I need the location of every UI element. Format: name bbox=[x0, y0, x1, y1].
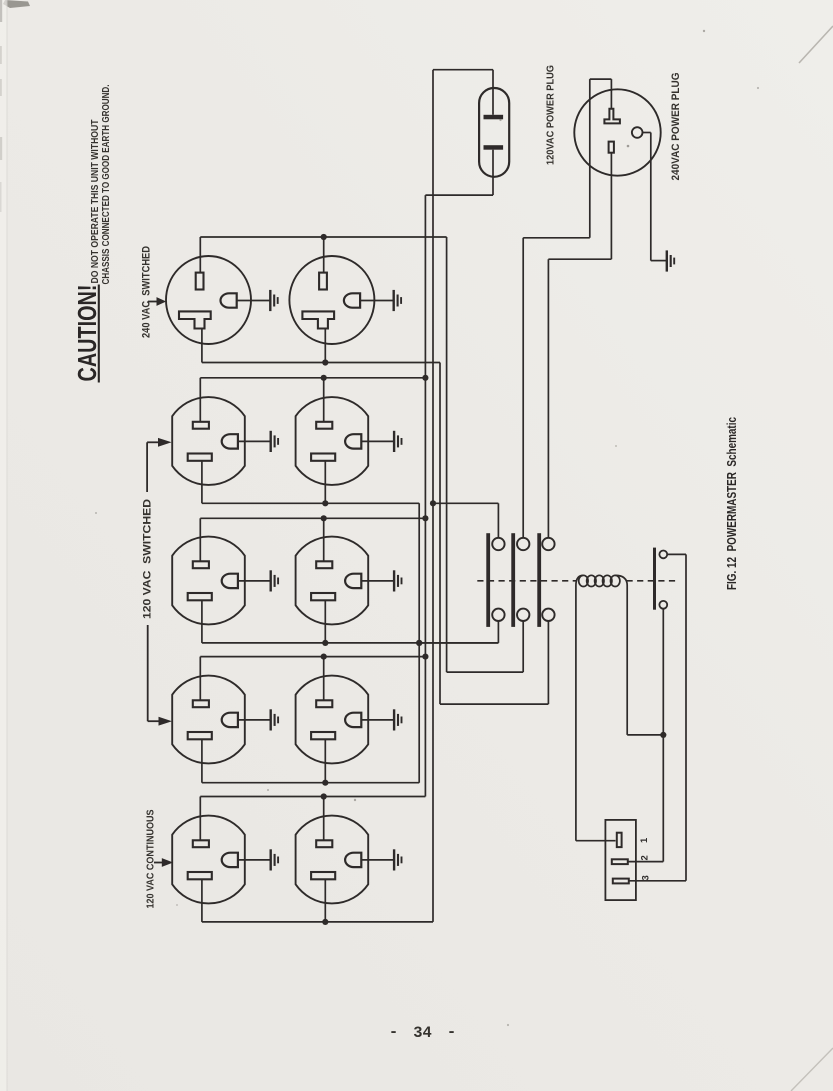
wire: coil lead joining switch wire bbox=[627, 586, 666, 739]
svg-text:-: - bbox=[389, 1023, 398, 1041]
120VAC plug P1 blade A bbox=[484, 88, 504, 119]
switch S1 contacts bbox=[659, 551, 667, 609]
svg-text:3: 3 bbox=[641, 875, 652, 880]
wire: plug P1 blade B to bus VL-B bbox=[425, 177, 493, 195]
receptacle J8 (row 4 120 VAC, col 2) bbox=[296, 676, 402, 764]
240VAC plug P2 round pin bbox=[632, 127, 643, 138]
svg-text:34: 34 bbox=[413, 1024, 432, 1042]
label: 120 VAC CONTINUOUS bbox=[146, 809, 157, 908]
chassis ground symbol bbox=[667, 250, 674, 271]
arrow: 120 VAC CONTINUOUS to row 5 bbox=[154, 858, 173, 867]
svg-text:120 VAC CONTINUOUS: 120 VAC CONTINUOUS bbox=[146, 809, 157, 908]
wire: bus VL-E (240V top to relay contact 2) bbox=[446, 237, 448, 672]
wire: bus VL-D (240V bottom to relay contact 3) bbox=[439, 363, 441, 705]
relay K1 mechanical linkage (dashed) bbox=[477, 580, 679, 582]
relay K1 contact blades bbox=[486, 533, 541, 627]
label: CAUTION! heading bbox=[72, 285, 102, 382]
receptacle J7 (row 4 120 VAC, col 1) bbox=[172, 676, 278, 764]
arrow: 120 VAC SWITCHED to row 2 bbox=[147, 438, 172, 492]
wire: plug P2 round pin to chassis ground bbox=[643, 133, 667, 261]
label: page number bbox=[389, 1023, 456, 1042]
wire: row 5 bottom bus bbox=[202, 879, 433, 925]
label: 240 VAC SWITCHED bbox=[141, 246, 153, 338]
svg-text:120VAC POWER PLUG: 120VAC POWER PLUG bbox=[546, 65, 557, 165]
240VAC power plug P2 body bbox=[574, 89, 660, 175]
svg-text:2: 2 bbox=[640, 855, 651, 860]
240VAC plug P2 ground pin (T) bbox=[604, 79, 620, 123]
wire: row 4 top bus bbox=[200, 654, 428, 701]
receptacle J1 (240 VAC switched, left) bbox=[166, 256, 278, 344]
terminal 2 slot bbox=[612, 859, 628, 864]
120VAC plug P1 blade B bbox=[484, 145, 504, 177]
svg-text:120 VAC SWITCHED: 120 VAC SWITCHED bbox=[142, 499, 154, 619]
svg-text:CHASSIS CONNECTED TO GOOD EART: CHASSIS CONNECTED TO GOOD EARTH GROUND. bbox=[101, 84, 112, 284]
120VAC power plug P1 body bbox=[479, 88, 509, 177]
wire: row 5 top bus bbox=[200, 793, 425, 840]
label: 240VAC POWER PLUG bbox=[670, 73, 682, 181]
arrow: 240 VAC SWITCHED to row 1 bbox=[148, 297, 166, 306]
switch S1 blade bbox=[653, 548, 656, 610]
receptacle J9 (row 5 120 VAC, col 1) bbox=[172, 816, 278, 904]
wire: 240V bottom bus bbox=[202, 329, 440, 366]
wire: row 4 bottom bus bbox=[202, 739, 419, 786]
wire: plug P1 blade A to bus VL-C bbox=[433, 70, 493, 88]
wire: 240V top bus bbox=[200, 234, 446, 273]
wire: relay contact2 top to 240V plug bbox=[523, 79, 611, 538]
wire: relay contact3 bottom to 240V bottom bus bbox=[440, 621, 548, 704]
terminal pin labels 1 2 3 bbox=[639, 837, 652, 881]
240VAC plug P2 slot pin bbox=[609, 142, 614, 260]
terminal 3 slot bbox=[613, 879, 629, 884]
label: caution line 1 bbox=[90, 119, 101, 284]
svg-text:CAUTION!: CAUTION! bbox=[72, 285, 102, 382]
svg-text:240VAC POWER PLUG: 240VAC POWER PLUG bbox=[670, 73, 682, 181]
wire: bus VL-A (switched rows neutral link) bbox=[416, 503, 422, 782]
receptacle J6 (row 3 120 VAC, col 2) bbox=[296, 537, 402, 625]
wire: coil lead to terminal 1 bbox=[576, 586, 616, 841]
wire: row 3 top bus bbox=[200, 515, 428, 561]
svg-text:-: - bbox=[447, 1023, 456, 1041]
label: 120 VAC SWITCHED bbox=[142, 499, 154, 619]
wire: bus VL-B (120V hot feed from plug blade B) bbox=[424, 195, 426, 796]
wire: switch top contact to terminal 3 bbox=[629, 554, 686, 880]
relay K1 contact points bbox=[492, 538, 554, 621]
svg-text:1: 1 bbox=[639, 837, 650, 843]
terminal strip TB1 body bbox=[605, 820, 636, 900]
wire: row 2 top bus bbox=[200, 375, 428, 422]
wire: relay contact3 top to 240V plug slot pin bbox=[548, 259, 611, 538]
svg-text:FIG. 12 POWERMASTER Schemati: FIG. 12 POWERMASTER Schematic bbox=[724, 417, 739, 590]
svg-text:240 VAC SWITCHED: 240 VAC SWITCHED bbox=[141, 246, 153, 338]
wire: row 2 bottom bus bbox=[202, 461, 419, 507]
svg-text:DO NOT OPERATE THIS UNIT WITHO: DO NOT OPERATE THIS UNIT WITHOUT bbox=[90, 119, 101, 284]
relay K1 coil bbox=[576, 575, 627, 586]
label: figure caption bbox=[724, 417, 739, 590]
receptacle J2 (240 VAC switched, right) bbox=[289, 256, 401, 344]
label: caution line 2 bbox=[101, 84, 112, 284]
label: 120VAC POWER PLUG bbox=[546, 65, 557, 165]
wire: switch bottom contact to terminal 2 bbox=[628, 609, 664, 862]
receptacle J4 (row 2 120 VAC, col 2) bbox=[296, 397, 402, 485]
terminal 1 slot bbox=[617, 833, 622, 847]
wire: row 3 bottom bus bbox=[202, 600, 499, 646]
wire: relay contact2 bottom to 240V top bus bbox=[447, 621, 524, 672]
wire: relay contact1 bottom to row3 bottom bus bbox=[416, 621, 498, 646]
receptacle J5 (row 3 120 VAC, col 1) bbox=[172, 537, 278, 625]
wire: bus VL-C (120V line from plug blade A) bbox=[430, 70, 436, 922]
arrow: 120 VAC SWITCHED to row 4 bbox=[148, 625, 172, 726]
receptacle J3 (row 2 120 VAC, col 1) bbox=[172, 397, 278, 485]
receptacle J10 (row 5 120 VAC, col 2) bbox=[296, 816, 402, 904]
wire: relay contact1 top to plug blade A line bbox=[433, 503, 498, 538]
underline of CAUTION! bbox=[98, 285, 100, 383]
